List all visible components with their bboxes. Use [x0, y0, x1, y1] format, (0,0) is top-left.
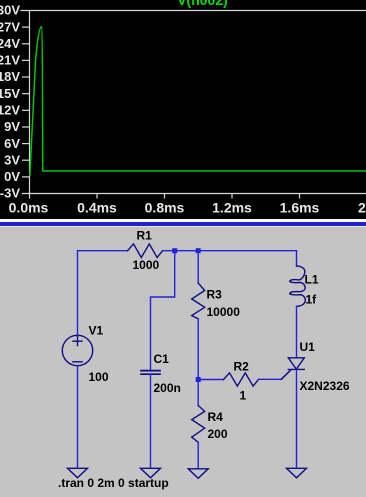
node junction J1 — [172, 248, 177, 253]
svg-text:10000: 10000 — [207, 305, 241, 319]
wire top from V1 to R1 — [78, 251, 128, 336]
svg-text:12V: 12V — [0, 103, 20, 118]
L1 loop tip dots — [289, 280, 291, 282]
svg-text:0.0ms: 0.0ms — [9, 200, 49, 216]
V1 minus sign — [73, 361, 82, 363]
svg-text:1f: 1f — [306, 293, 318, 307]
pane separator blue — [0, 222, 366, 226]
wire J2 down to R3 — [197, 251, 199, 283]
svg-text:R4: R4 — [208, 410, 224, 424]
wire C1 bottom to ground — [150, 375, 152, 468]
svg-text:1000: 1000 — [133, 258, 160, 272]
V1 plus sign — [73, 337, 82, 346]
SCR U1 gate lead — [281, 370, 290, 379]
schematic pane — [0, 227, 366, 497]
svg-text:1.2ms: 1.2ms — [212, 200, 252, 216]
svg-text:9V: 9V — [4, 119, 20, 134]
svg-text:C1: C1 — [154, 352, 170, 366]
svg-text:3V: 3V — [4, 152, 20, 167]
svg-text:6V: 6V — [4, 136, 20, 151]
resistor R4 — [192, 406, 205, 443]
plot bottom border (-3V line) — [22, 193, 366, 195]
waveform pane — [0, 0, 366, 220]
wire U1 to ground — [296, 369, 298, 468]
svg-text:1.6ms: 1.6ms — [280, 200, 320, 216]
svg-text:R3: R3 — [207, 288, 223, 302]
wire R2 to U1 gate — [259, 370, 291, 379]
ground below V1 — [68, 468, 88, 478]
svg-text:L1: L1 — [305, 273, 319, 287]
ground below U1 — [287, 468, 307, 478]
svg-text:15V: 15V — [0, 86, 20, 101]
svg-text:V(n002): V(n002) — [177, 0, 228, 8]
node junction J3 — [196, 377, 201, 382]
capacitor C1 — [141, 371, 160, 375]
svg-text:V1: V1 — [89, 324, 104, 338]
svg-text:24V: 24V — [0, 36, 20, 51]
wire L1 to U1 — [296, 306, 298, 357]
y-axis labels — [0, 3, 20, 201]
svg-text:-3V: -3V — [0, 186, 20, 201]
ground below R4 — [188, 469, 208, 479]
SCR U1 cathode bar — [288, 368, 304, 370]
voltage source V1 — [62, 335, 92, 365]
svg-text:200: 200 — [208, 427, 228, 441]
svg-text:R2: R2 — [234, 360, 250, 374]
green trace V(n002) — [30, 27, 366, 177]
svg-text:200n: 200n — [154, 381, 181, 395]
resistor R1 — [128, 244, 163, 258]
x-axis labels — [9, 200, 366, 216]
svg-text:30V: 30V — [0, 3, 20, 18]
svg-text:X2N2326: X2N2326 — [300, 379, 350, 393]
svg-text:0.4ms: 0.4ms — [77, 200, 117, 216]
svg-text:27V: 27V — [0, 19, 20, 34]
wire R3 to J3 — [197, 319, 199, 406]
resistor R2 — [224, 373, 259, 386]
ground below C1 — [141, 468, 161, 478]
svg-text:100: 100 — [89, 370, 109, 384]
wire V1 bottom to ground — [77, 366, 79, 468]
svg-text:R1: R1 — [137, 229, 153, 243]
plot top border (30V line) — [21, 10, 366, 12]
inductor L1 — [290, 266, 306, 307]
svg-text:18V: 18V — [0, 69, 20, 84]
svg-text:1: 1 — [240, 389, 247, 403]
pane separator light — [0, 226, 366, 227]
wire R1 to L1 top — [163, 250, 297, 252]
plot left border — [29, 11, 31, 194]
svg-text:0V: 0V — [4, 169, 20, 184]
svg-text:0.8ms: 0.8ms — [145, 200, 185, 216]
svg-text:U1: U1 — [300, 340, 316, 354]
wire top right corner down to L1 — [296, 251, 298, 266]
x-axis ticks — [30, 194, 300, 199]
node junction J2 — [196, 248, 201, 253]
SCR U1 triangle — [288, 358, 304, 369]
wire J3 to R2 — [201, 379, 224, 381]
svg-text:21V: 21V — [0, 53, 20, 68]
svg-text:2.0ms: 2.0ms — [358, 200, 366, 216]
svg-text:.tran 0 2m 0 startup: .tran 0 2m 0 startup — [58, 476, 169, 490]
y-axis ticks — [22, 27, 30, 177]
wire J1 down and jog to C1 — [151, 251, 175, 370]
wire R4 to ground — [197, 442, 199, 468]
resistor R3 — [192, 283, 205, 319]
pane separator white — [0, 219, 366, 222]
